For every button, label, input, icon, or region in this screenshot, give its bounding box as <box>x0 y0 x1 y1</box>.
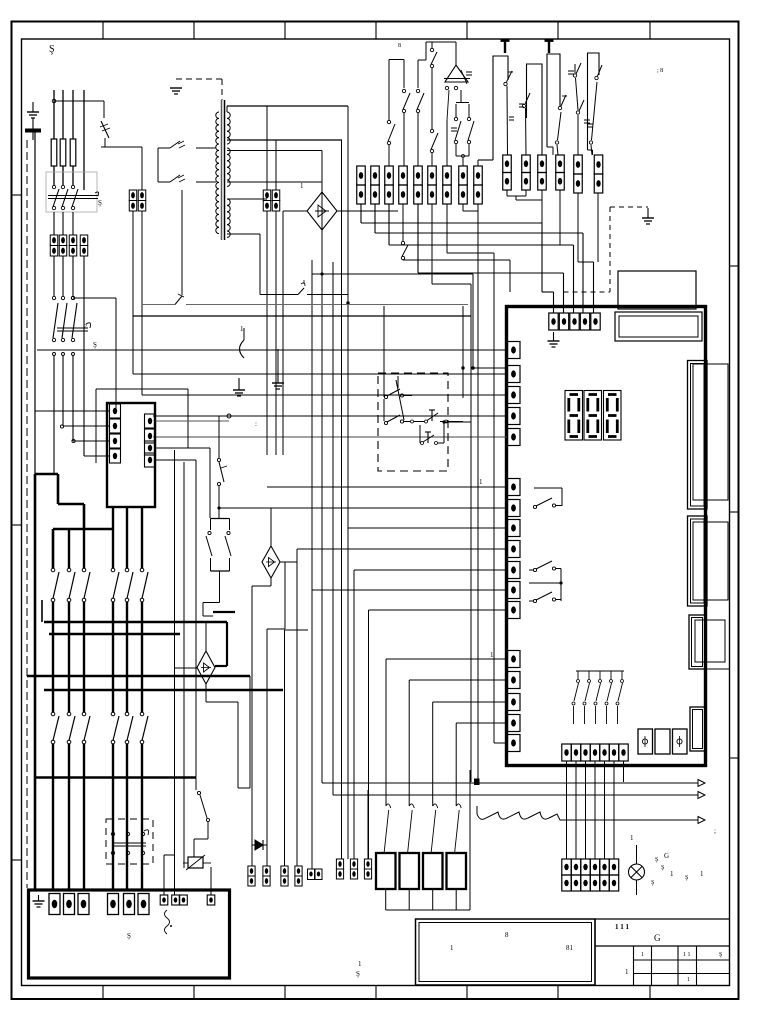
wire 508-526 bracket <box>506 191 508 197</box>
bold jog 504 <box>58 503 84 506</box>
wire breaker-term L2 <box>62 212 64 235</box>
wire v322 <box>321 151 323 784</box>
svg-text:1: 1 <box>490 651 494 659</box>
svg-text:Ş: Ş <box>719 952 722 958</box>
wire H126 <box>108 125 116 127</box>
left module out4 <box>156 459 197 461</box>
terminal row X3 <box>357 166 366 185</box>
wire smallterm3 <box>183 462 185 868</box>
wire T1 sec1a <box>227 105 348 107</box>
svg-text:1: 1 <box>625 968 629 976</box>
wire X2b feeds <box>266 106 268 190</box>
zigzag bus <box>477 806 698 820</box>
connector J2 <box>688 516 708 606</box>
switch lower-left <box>195 778 197 791</box>
wire VC3 <box>205 622 207 651</box>
board small box3 <box>673 729 688 754</box>
wire breaker-term L3 <box>72 212 74 235</box>
bottom box ground <box>38 895 40 901</box>
wire relay bottoms <box>385 889 387 910</box>
loop L2 <box>527 64 543 155</box>
board bottom terminal strip <box>562 744 571 761</box>
diode VD1 <box>252 844 267 846</box>
switch col389 <box>388 145 390 166</box>
ground mid2 <box>277 371 279 383</box>
wire stair4 <box>417 204 419 273</box>
wire v182 <box>181 190 183 295</box>
wire b395 <box>142 394 507 396</box>
wire b549 <box>297 548 507 550</box>
disconnect switch QS1 <box>53 256 55 296</box>
dashed wire to T1 <box>176 78 222 80</box>
bold stub 612 <box>213 611 235 613</box>
bold bus 529 <box>53 528 113 531</box>
terminal pair horiz <box>308 869 315 880</box>
svg-text:Ş: Ş <box>655 857 658 863</box>
wire v312b <box>311 274 313 869</box>
svg-text:Ş: Ş <box>93 341 97 349</box>
wire v403 <box>402 204 404 241</box>
connector J1 <box>688 361 708 510</box>
wire T1 sec2b <box>227 181 322 183</box>
board relay bank <box>576 670 624 672</box>
wire b570 <box>354 569 507 571</box>
triangle symbol <box>445 65 468 82</box>
contactor banks KM1 KM2 <box>52 529 54 568</box>
wire T1-pri link <box>157 148 159 182</box>
dashed box QS2 <box>106 819 153 864</box>
svg-text:1: 1 <box>450 944 454 952</box>
svg-text:Ş: Ş <box>356 970 360 978</box>
svg-text:1: 1 <box>687 977 690 983</box>
wire v470 <box>469 770 471 910</box>
box top right <box>618 271 696 309</box>
wire breaker-term L1 <box>53 212 55 235</box>
bold wire left <box>34 474 37 890</box>
bottom box terminals small <box>160 895 168 905</box>
disconnect QS2 <box>111 832 114 835</box>
wires board to grid <box>566 761 568 859</box>
bold link 250 <box>249 676 251 788</box>
wire v354 <box>353 570 355 859</box>
terminal pair X2 <box>129 190 137 201</box>
wire h316 <box>133 315 471 317</box>
wire X2b down b <box>275 211 277 455</box>
bottom box terminals big <box>49 894 60 915</box>
wire X2 down b <box>141 211 143 395</box>
wire b416 <box>153 415 507 417</box>
wire H294 <box>260 294 298 296</box>
wire VC2 <box>270 508 272 546</box>
battery bar symbol <box>25 129 41 133</box>
wire H274 <box>312 273 473 275</box>
wire T1 sec3a <box>227 198 267 200</box>
left module box <box>107 403 155 507</box>
wire k-top <box>383 306 385 351</box>
svg-text:8: 8 <box>398 43 401 49</box>
bold bus 676 <box>27 675 250 678</box>
wire b508 <box>219 507 507 509</box>
varistor RV1 <box>188 857 203 868</box>
wire smallterm1 <box>163 855 165 895</box>
wire v368 <box>367 790 369 859</box>
transformer T1 core <box>221 100 223 240</box>
wire v463 <box>462 204 464 211</box>
wire tie top <box>54 100 104 102</box>
wire b610 <box>369 609 508 611</box>
wire b680 <box>409 679 507 681</box>
wire v473 <box>472 274 474 368</box>
controller board U1 outline <box>507 307 706 766</box>
wire 558 down <box>559 191 561 246</box>
svg-text:1: 1 <box>670 870 674 878</box>
wire from Q0 <box>104 138 106 147</box>
svg-text:1 1 1: 1 1 1 <box>615 923 630 931</box>
board ground <box>553 332 555 341</box>
dash-dot border line left <box>26 140 28 888</box>
transformer T1 secondary windings <box>227 112 230 118</box>
svg-text:G: G <box>664 852 669 860</box>
junction block <box>474 779 480 786</box>
svg-text:;: ; <box>714 827 716 835</box>
bold bus 622 <box>44 621 227 624</box>
svg-text:Ş: Ş <box>49 44 55 55</box>
svg-text:1: 1 <box>630 834 634 842</box>
svg-text:Ş: Ş <box>651 880 654 886</box>
switch v219 <box>218 416 220 458</box>
wire v478 <box>477 204 479 782</box>
wire QS1-out L2 <box>62 356 64 426</box>
svg-text:Ş: Ş <box>661 865 664 871</box>
wire smallterm2 <box>174 450 176 895</box>
linked switches K1 <box>383 351 385 397</box>
bold bus 690 <box>44 689 283 692</box>
svg-text:Ş: Ş <box>685 875 688 881</box>
left module loop <box>96 388 188 390</box>
title left edge <box>594 919 596 986</box>
svg-text:Ş: Ş <box>98 199 102 207</box>
wire stair5 <box>593 262 595 313</box>
wire v296 <box>296 549 298 866</box>
wire v340 <box>341 140 343 859</box>
current transformer TA1 <box>240 340 245 358</box>
terminal grid X5 <box>562 859 571 875</box>
dashed box K-group <box>378 373 448 471</box>
wire v471 <box>470 284 472 782</box>
terminal block X1 <box>50 235 58 246</box>
switch Q0 arm <box>103 101 105 118</box>
wire N <box>83 90 85 190</box>
wire N down <box>83 256 85 456</box>
wire T1 sec2a <box>227 150 322 152</box>
terminal pairs bottom mid <box>248 866 255 876</box>
left module feeds <box>35 410 110 412</box>
switch col418 <box>417 113 419 166</box>
bottom box outline <box>29 890 230 978</box>
terminal row X4 <box>503 155 512 173</box>
wire 542 down <box>541 191 543 201</box>
wire v348 <box>347 106 349 859</box>
wire smallterm4 <box>210 867 212 895</box>
left module out1 <box>156 420 230 422</box>
svg-text:1: 1 <box>240 325 244 333</box>
svg-text:1 1: 1 1 <box>683 952 691 958</box>
wire 578 down <box>577 193 579 262</box>
wire v267 <box>266 211 268 455</box>
wire L2 <box>62 90 64 139</box>
bold bus 634 <box>49 633 180 636</box>
wire QS1-out L3 <box>72 356 74 441</box>
title block top line <box>595 918 730 920</box>
relay coils KA1-KA4 <box>376 853 396 889</box>
wire 598 down <box>597 193 599 262</box>
wire stair dashed <box>564 291 611 293</box>
feed tick B <box>548 39 550 53</box>
board left terminals upper <box>508 342 521 359</box>
connector J4 <box>690 707 705 751</box>
bold link 227 <box>226 622 228 666</box>
board top terminal strip <box>549 313 558 330</box>
switch col404 <box>402 166 404 204</box>
svg-text:1: 1 <box>479 478 483 486</box>
ground TA1 <box>238 378 240 390</box>
wire v433 <box>432 702 434 806</box>
bridge rectifier VC1 <box>307 192 337 230</box>
wire L1 <box>53 90 55 139</box>
svg-text:1: 1 <box>300 182 304 190</box>
pair switch box <box>210 519 212 531</box>
wire fuse-breaker L1 <box>53 166 55 185</box>
feed tick A <box>504 39 506 53</box>
wire L3 <box>72 90 74 139</box>
terminal singles bottom mid <box>336 859 343 869</box>
wire b528 <box>348 527 507 529</box>
wire b437 <box>153 436 507 438</box>
wire v457 <box>455 723 457 806</box>
svg-text:; 8: ; 8 <box>657 68 663 74</box>
thermistor squiggle <box>165 910 170 934</box>
switch T1-pri-2 <box>158 181 170 183</box>
svg-text:1: 1 <box>700 870 704 878</box>
ground PE left <box>32 102 34 112</box>
svg-text:Ş: Ş <box>127 932 131 940</box>
switch col463 <box>462 158 464 166</box>
terminal pair X2b <box>263 190 271 201</box>
bold bus 777 <box>35 776 196 778</box>
loop L1 <box>493 56 508 160</box>
svg-text:G: G <box>654 933 661 943</box>
board small box2 <box>655 729 670 754</box>
ground transformer top <box>175 87 177 89</box>
wire v447 <box>446 204 448 253</box>
left module out3 <box>156 447 211 449</box>
transformer T1 primary winding <box>216 112 219 118</box>
board left terminals lower <box>508 651 521 668</box>
wire b659 <box>386 658 507 660</box>
switch col578 <box>574 64 576 73</box>
wire h305 <box>142 304 175 306</box>
double box right <box>615 312 702 341</box>
wire X2 down a <box>132 211 134 374</box>
wire stair3 <box>388 204 390 245</box>
svg-text::: : <box>255 420 257 428</box>
left module terminals <box>110 404 121 418</box>
board switch SW-B <box>533 568 536 571</box>
wire stair2 <box>374 204 376 233</box>
diamond VC2 <box>262 546 280 578</box>
board left terminals middle <box>508 479 521 496</box>
linked switches K2 <box>404 421 410 423</box>
ground dashed right <box>647 208 649 218</box>
wire QS1-out L1 <box>53 356 55 474</box>
title table <box>633 946 635 986</box>
svg-text:81: 81 <box>566 944 574 952</box>
border tick marks <box>102 22 104 40</box>
wire T1 sec1b <box>227 139 342 141</box>
seven-segment display <box>565 391 583 441</box>
wire v354b <box>353 790 355 859</box>
wire stair1 <box>360 204 362 223</box>
bottom center box <box>416 919 596 985</box>
wire fuse-breaker L3 <box>72 166 74 185</box>
lamp HL1 <box>629 864 645 880</box>
board switch SW-A <box>534 487 562 489</box>
wire v432 <box>431 204 433 284</box>
wire X2 feed <box>141 147 143 190</box>
diamond VC3 <box>197 651 215 684</box>
wire v333 <box>332 262 334 795</box>
bus arrow2 <box>333 794 698 796</box>
wire b487 <box>267 486 507 488</box>
wire b374 <box>133 373 507 375</box>
wire v252 <box>251 586 253 866</box>
wire J3 right <box>705 668 729 670</box>
wire b350 <box>37 349 507 351</box>
wire b590 <box>312 589 507 591</box>
wire b723 <box>456 722 507 724</box>
svg-text:8: 8 <box>505 931 509 939</box>
wire v368 <box>368 610 370 859</box>
wire v386 <box>385 659 387 806</box>
connector J3 <box>689 615 705 669</box>
board small box1 <box>638 729 653 754</box>
switch T1-pri-1 <box>158 147 170 149</box>
wire K right <box>462 368 464 398</box>
bar marks switches <box>451 117 590 131</box>
svg-text:1: 1 <box>358 960 362 968</box>
wire v283 <box>282 211 284 455</box>
wire T1 sec3b <box>227 233 260 235</box>
wire QS1 branch <box>71 296 74 299</box>
wire v409 <box>408 680 410 806</box>
switch col432a <box>431 153 433 166</box>
svg-text:1: 1 <box>641 952 644 958</box>
title line2 <box>595 945 730 947</box>
loop L3 <box>547 54 560 147</box>
fuses F1 F2 F3 <box>51 139 57 166</box>
wire b702 <box>433 701 507 703</box>
wire b743 <box>494 742 507 744</box>
switch col447 <box>446 120 448 166</box>
left module out2 <box>156 435 508 437</box>
wire v494 <box>493 253 495 743</box>
circuit breaker QF1 <box>46 172 97 212</box>
loop L4 <box>588 53 600 150</box>
linked switches K3 <box>419 425 421 443</box>
bus arrow1 <box>322 782 698 784</box>
wire fuse-breaker L2 <box>62 166 64 185</box>
wire VC1 right <box>337 210 398 212</box>
